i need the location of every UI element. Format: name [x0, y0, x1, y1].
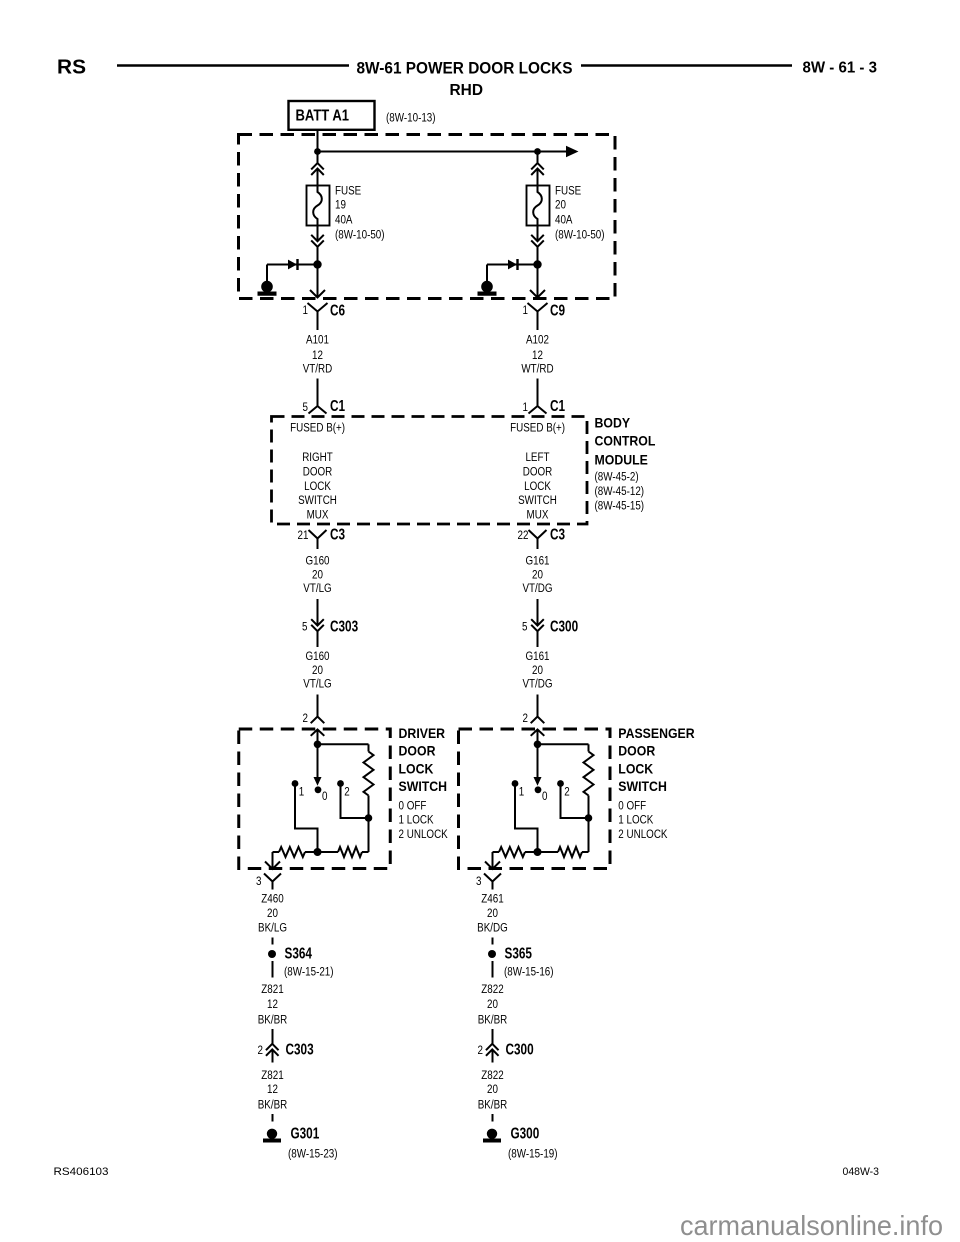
svg-text:Z822: Z822 [481, 983, 503, 996]
connector C6 fork [308, 303, 328, 312]
svg-text:VT/DG: VT/DG [522, 582, 552, 595]
svg-text:VT/LG: VT/LG [303, 582, 331, 595]
wire below C300 [537, 631, 539, 647]
svg-text:1: 1 [523, 401, 528, 414]
svg-text:BODY: BODY [595, 415, 631, 431]
svg-text:(8W-45-15): (8W-45-15) [595, 500, 645, 513]
splice S365 [488, 950, 496, 958]
svg-text:BATT A1: BATT A1 [296, 108, 350, 125]
svg-text:20: 20 [532, 664, 543, 677]
svg-text:1: 1 [303, 304, 308, 317]
connector C9 fork [528, 303, 548, 312]
svg-text:SWITCH: SWITCH [518, 494, 557, 507]
svg-text:C9: C9 [550, 302, 565, 319]
wire into C300 [492, 1029, 494, 1044]
svg-text:3: 3 [256, 875, 261, 888]
diode right [508, 260, 517, 270]
svg-text:(8W-15-16): (8W-15-16) [504, 966, 554, 979]
wire below C303 [317, 631, 319, 647]
exit wire [272, 852, 274, 869]
junction node A [534, 741, 542, 749]
svg-text:FUSED B(+): FUSED B(+) [510, 422, 565, 435]
svg-text:carmanualsonline.info: carmanualsonline.info [680, 1210, 943, 1241]
bottom left resistor [273, 851, 280, 853]
svg-text:C300: C300 [505, 1041, 533, 1058]
svg-text:RIGHT: RIGHT [302, 451, 333, 464]
svg-text:A102: A102 [526, 334, 549, 347]
wire A102 to C1 [537, 379, 539, 407]
svg-text:DOOR: DOOR [399, 743, 436, 759]
wire below C303 [272, 1049, 274, 1062]
wire from contact 1 [295, 784, 318, 853]
svg-text:20: 20 [312, 664, 323, 677]
svg-text:20: 20 [487, 907, 498, 920]
diode feed wire left [267, 264, 318, 266]
wire to resistor branch [538, 743, 589, 745]
svg-text:(8W-10-50): (8W-10-50) [335, 229, 385, 242]
switch position legend [399, 800, 449, 842]
svg-text:LOCK: LOCK [618, 761, 653, 777]
junction node A [314, 741, 322, 749]
svg-text:2: 2 [258, 1044, 263, 1057]
svg-text:BK/DG: BK/DG [477, 922, 508, 935]
svg-text:WT/RD: WT/RD [521, 363, 553, 376]
svg-text:FUSE: FUSE [555, 185, 581, 198]
svg-text:SWITCH: SWITCH [618, 778, 667, 794]
border arrow into connector C6 [310, 290, 325, 298]
svg-text:(8W-45-12): (8W-45-12) [595, 485, 645, 498]
wire A101 to C1 [317, 379, 319, 407]
ground symbol in power box right [481, 281, 493, 293]
svg-text:C3: C3 [550, 526, 565, 543]
svg-text:5: 5 [522, 621, 527, 634]
contact 2 [337, 780, 344, 787]
junction node B [585, 814, 593, 822]
wire below C300 [492, 1049, 494, 1062]
svg-text:FUSE: FUSE [335, 185, 361, 198]
contact 0 [315, 786, 322, 793]
svg-text:3: 3 [476, 875, 481, 888]
svg-text:S365: S365 [505, 945, 533, 962]
svg-text:12: 12 [267, 1083, 278, 1096]
entry wire [317, 730, 319, 745]
wire fuse 20 down [537, 219, 539, 241]
svg-text:40A: 40A [335, 214, 353, 227]
splice S364 [268, 950, 276, 958]
ground symbol in power box left [261, 281, 273, 293]
svg-text:BK/LG: BK/LG [258, 922, 287, 935]
svg-text:LOCK: LOCK [524, 480, 551, 493]
svg-text:(8W-15-19): (8W-15-19) [508, 1148, 558, 1161]
svg-text:(8W-15-23): (8W-15-23) [288, 1148, 338, 1161]
svg-text:Z822: Z822 [481, 1069, 503, 1082]
svg-text:FUSED B(+): FUSED B(+) [290, 422, 345, 435]
svg-text:SWITCH: SWITCH [399, 778, 448, 794]
wire stub above ground [492, 1114, 494, 1122]
svg-text:0 OFF: 0 OFF [618, 800, 646, 813]
junction node diode tap right [533, 260, 541, 268]
svg-text:PASSENGER: PASSENGER [618, 725, 695, 741]
junction node C [314, 848, 322, 856]
svg-text:VT/DG: VT/DG [522, 678, 552, 691]
bottom right resistor [318, 851, 339, 853]
svg-text:G161: G161 [525, 650, 549, 663]
wire from contact 2 [561, 784, 589, 819]
svg-text:G301: G301 [291, 1125, 320, 1142]
connector C3 fork pin 22 [529, 530, 547, 539]
svg-text:5: 5 [303, 401, 308, 414]
contact 1 [512, 780, 519, 787]
bus arrow [566, 146, 579, 158]
contact 2 [557, 780, 564, 787]
svg-text:RS406103: RS406103 [54, 1166, 109, 1178]
svg-text:DOOR: DOOR [618, 743, 655, 759]
svg-text:Z461: Z461 [481, 893, 503, 906]
connector C303 chevrons [266, 1044, 279, 1050]
svg-text:C3: C3 [330, 526, 345, 543]
PASSENGER label [618, 725, 695, 794]
svg-text:S364: S364 [284, 945, 312, 962]
door switch pin 2 fork [311, 717, 325, 724]
svg-text:12: 12 [312, 349, 323, 362]
body control module dashed box [272, 417, 588, 525]
svg-text:G160: G160 [305, 555, 329, 568]
svg-text:MUX: MUX [307, 509, 329, 522]
entry wire [537, 730, 539, 745]
wire stub above splice [272, 938, 274, 945]
connector C300 chevrons [486, 1044, 499, 1050]
svg-text:RHD: RHD [450, 82, 484, 99]
connector pin 3 fork below switch [264, 874, 281, 882]
svg-text:C1: C1 [550, 397, 565, 414]
exit arrow [265, 862, 280, 870]
BCM label LEFT DOOR LOCK SWITCH MUX [518, 451, 557, 522]
svg-text:12: 12 [267, 998, 278, 1011]
svg-text:2: 2 [303, 712, 308, 725]
connector C300 chevrons [531, 619, 544, 625]
svg-text:20: 20 [487, 998, 498, 1011]
contact 0 [535, 786, 542, 793]
svg-text:1: 1 [299, 786, 304, 799]
svg-text:20: 20 [532, 569, 543, 582]
svg-text:CONTROL: CONTROL [595, 433, 656, 449]
entry arrow [311, 730, 325, 736]
svg-text:BK/BR: BK/BR [258, 1014, 288, 1027]
exit arrow [485, 862, 500, 870]
bottom left resistor [493, 851, 500, 853]
svg-text:MODULE: MODULE [595, 452, 649, 468]
connector C1 fork [529, 406, 547, 414]
svg-text:C303: C303 [286, 1041, 314, 1058]
wire to resistor branch [318, 743, 369, 745]
svg-text:RS: RS [57, 57, 86, 79]
svg-text:8W - 61 - 3: 8W - 61 - 3 [803, 60, 878, 77]
passenger door lock switch dashed box [459, 729, 611, 869]
wire fuse 19 down [317, 219, 319, 241]
inline connector chevrons below fuse 19 [311, 235, 324, 241]
svg-text:DOOR: DOOR [523, 466, 553, 479]
svg-text:VT/LG: VT/LG [303, 678, 331, 691]
svg-text:BK/BR: BK/BR [478, 1099, 508, 1112]
svg-text:C300: C300 [550, 618, 578, 635]
svg-text:2: 2 [523, 712, 528, 725]
svg-text:1: 1 [519, 786, 524, 799]
svg-text:22: 22 [518, 529, 529, 542]
junction node right bus tap [534, 148, 541, 155]
border arrow into connector C9 [530, 290, 545, 298]
diode left [288, 260, 297, 270]
switch wiper arrow [317, 744, 319, 778]
svg-text:21: 21 [298, 529, 309, 542]
svg-text:20: 20 [555, 199, 566, 212]
svg-text:2: 2 [478, 1044, 483, 1057]
svg-text:C6: C6 [330, 302, 345, 319]
diode feed wire right [487, 264, 538, 266]
wire stub above ground [272, 1114, 274, 1122]
svg-text:1 LOCK: 1 LOCK [399, 814, 435, 827]
wire from contact 1 [515, 784, 538, 853]
door switch pin 2 fork [531, 717, 545, 724]
svg-text:5: 5 [302, 621, 307, 634]
svg-text:0: 0 [322, 790, 327, 803]
switch position legend [618, 800, 668, 842]
svg-text:2: 2 [344, 786, 349, 799]
svg-text:G160: G160 [305, 650, 329, 663]
header rule right [581, 64, 792, 66]
svg-text:2: 2 [564, 786, 569, 799]
svg-text:048W-3: 048W-3 [843, 1166, 880, 1178]
inline connector chevrons below fuse 20 [531, 235, 544, 241]
svg-text:Z460: Z460 [261, 893, 283, 906]
svg-text:12: 12 [532, 349, 543, 362]
fuse 19 40A [307, 186, 330, 226]
svg-text:LOCK: LOCK [399, 761, 434, 777]
battery feed box BATT A1 [289, 101, 375, 130]
switch wiper arrow [537, 744, 539, 778]
wire stub above splice [492, 938, 494, 945]
svg-text:SWITCH: SWITCH [298, 494, 337, 507]
wire to door switch pin 2 [317, 695, 319, 717]
svg-text:C303: C303 [330, 618, 358, 635]
svg-text:(8W-10-13): (8W-10-13) [386, 112, 436, 125]
svg-text:(8W-45-2): (8W-45-2) [595, 471, 639, 484]
power distribution dashed box [239, 135, 616, 299]
wire from BATT A1 to bus [317, 130, 319, 152]
wire into C300 [537, 599, 539, 626]
svg-text:19: 19 [335, 199, 346, 212]
bus wire [318, 151, 568, 153]
junction node diode tap left [313, 260, 321, 268]
svg-text:(8W-15-21): (8W-15-21) [284, 966, 334, 979]
ground G300 [487, 1129, 497, 1139]
svg-text:20: 20 [267, 907, 278, 920]
svg-text:LEFT: LEFT [525, 451, 549, 464]
connector C3 fork pin 21 [309, 530, 327, 539]
wire to door switch pin 2 [537, 695, 539, 717]
svg-text:BK/BR: BK/BR [478, 1014, 508, 1027]
svg-text:C1: C1 [330, 397, 345, 414]
DRIVER label [399, 725, 448, 794]
wire bus to fuse 20 [537, 152, 539, 164]
junction node B [365, 814, 373, 822]
svg-text:VT/RD: VT/RD [303, 363, 333, 376]
svg-text:LOCK: LOCK [304, 480, 331, 493]
svg-text:1: 1 [523, 304, 528, 317]
wire into C303 [272, 1029, 274, 1044]
svg-text:G300: G300 [510, 1125, 539, 1142]
svg-text:20: 20 [312, 569, 323, 582]
svg-text:2 UNLOCK: 2 UNLOCK [399, 828, 449, 841]
ground G301 [267, 1129, 277, 1139]
connector C303 chevrons [311, 619, 324, 625]
fuse 20 40A [527, 186, 550, 226]
svg-text:(8W-10-50): (8W-10-50) [555, 229, 605, 242]
wire stub below splice [492, 961, 494, 978]
wire from contact 2 [341, 784, 369, 819]
svg-text:MUX: MUX [527, 509, 549, 522]
svg-text:1 LOCK: 1 LOCK [618, 814, 654, 827]
svg-text:A101: A101 [306, 334, 329, 347]
exit wire [492, 852, 494, 869]
header rule left [117, 64, 349, 66]
inline connector chevrons above fuse 19 [311, 163, 324, 169]
svg-text:20: 20 [487, 1083, 498, 1096]
svg-text:Z821: Z821 [261, 1069, 283, 1082]
svg-text:DOOR: DOOR [303, 466, 333, 479]
svg-text:G161: G161 [525, 555, 549, 568]
svg-text:40A: 40A [555, 214, 573, 227]
wire bus to fuse 19 [317, 152, 319, 164]
entry arrow [531, 730, 545, 736]
inline connector chevrons above fuse 20 [531, 163, 544, 169]
svg-text:Z821: Z821 [261, 983, 283, 996]
junction node left bus tap [314, 148, 321, 155]
BCM label RIGHT DOOR LOCK SWITCH MUX [298, 451, 337, 522]
bottom right resistor [538, 851, 559, 853]
contact 1 [292, 780, 299, 787]
svg-text:DRIVER: DRIVER [399, 725, 446, 741]
svg-text:BK/BR: BK/BR [258, 1099, 288, 1112]
connector C1 fork [309, 406, 327, 414]
wire stub below splice [272, 961, 274, 978]
resistor vertical [368, 744, 370, 751]
svg-text:0: 0 [542, 790, 547, 803]
resistor vertical [588, 744, 590, 751]
junction node C [534, 848, 542, 856]
svg-text:0 OFF: 0 OFF [399, 800, 427, 813]
BCM name BODY CONTROL MODULE [595, 415, 656, 468]
connector pin 3 fork below switch [484, 874, 501, 882]
wire into C303 [317, 599, 319, 626]
driver door lock switch dashed box [239, 729, 391, 869]
svg-text:8W-61 POWER DOOR LOCKS: 8W-61 POWER DOOR LOCKS [357, 59, 573, 78]
svg-text:2 UNLOCK: 2 UNLOCK [618, 828, 668, 841]
